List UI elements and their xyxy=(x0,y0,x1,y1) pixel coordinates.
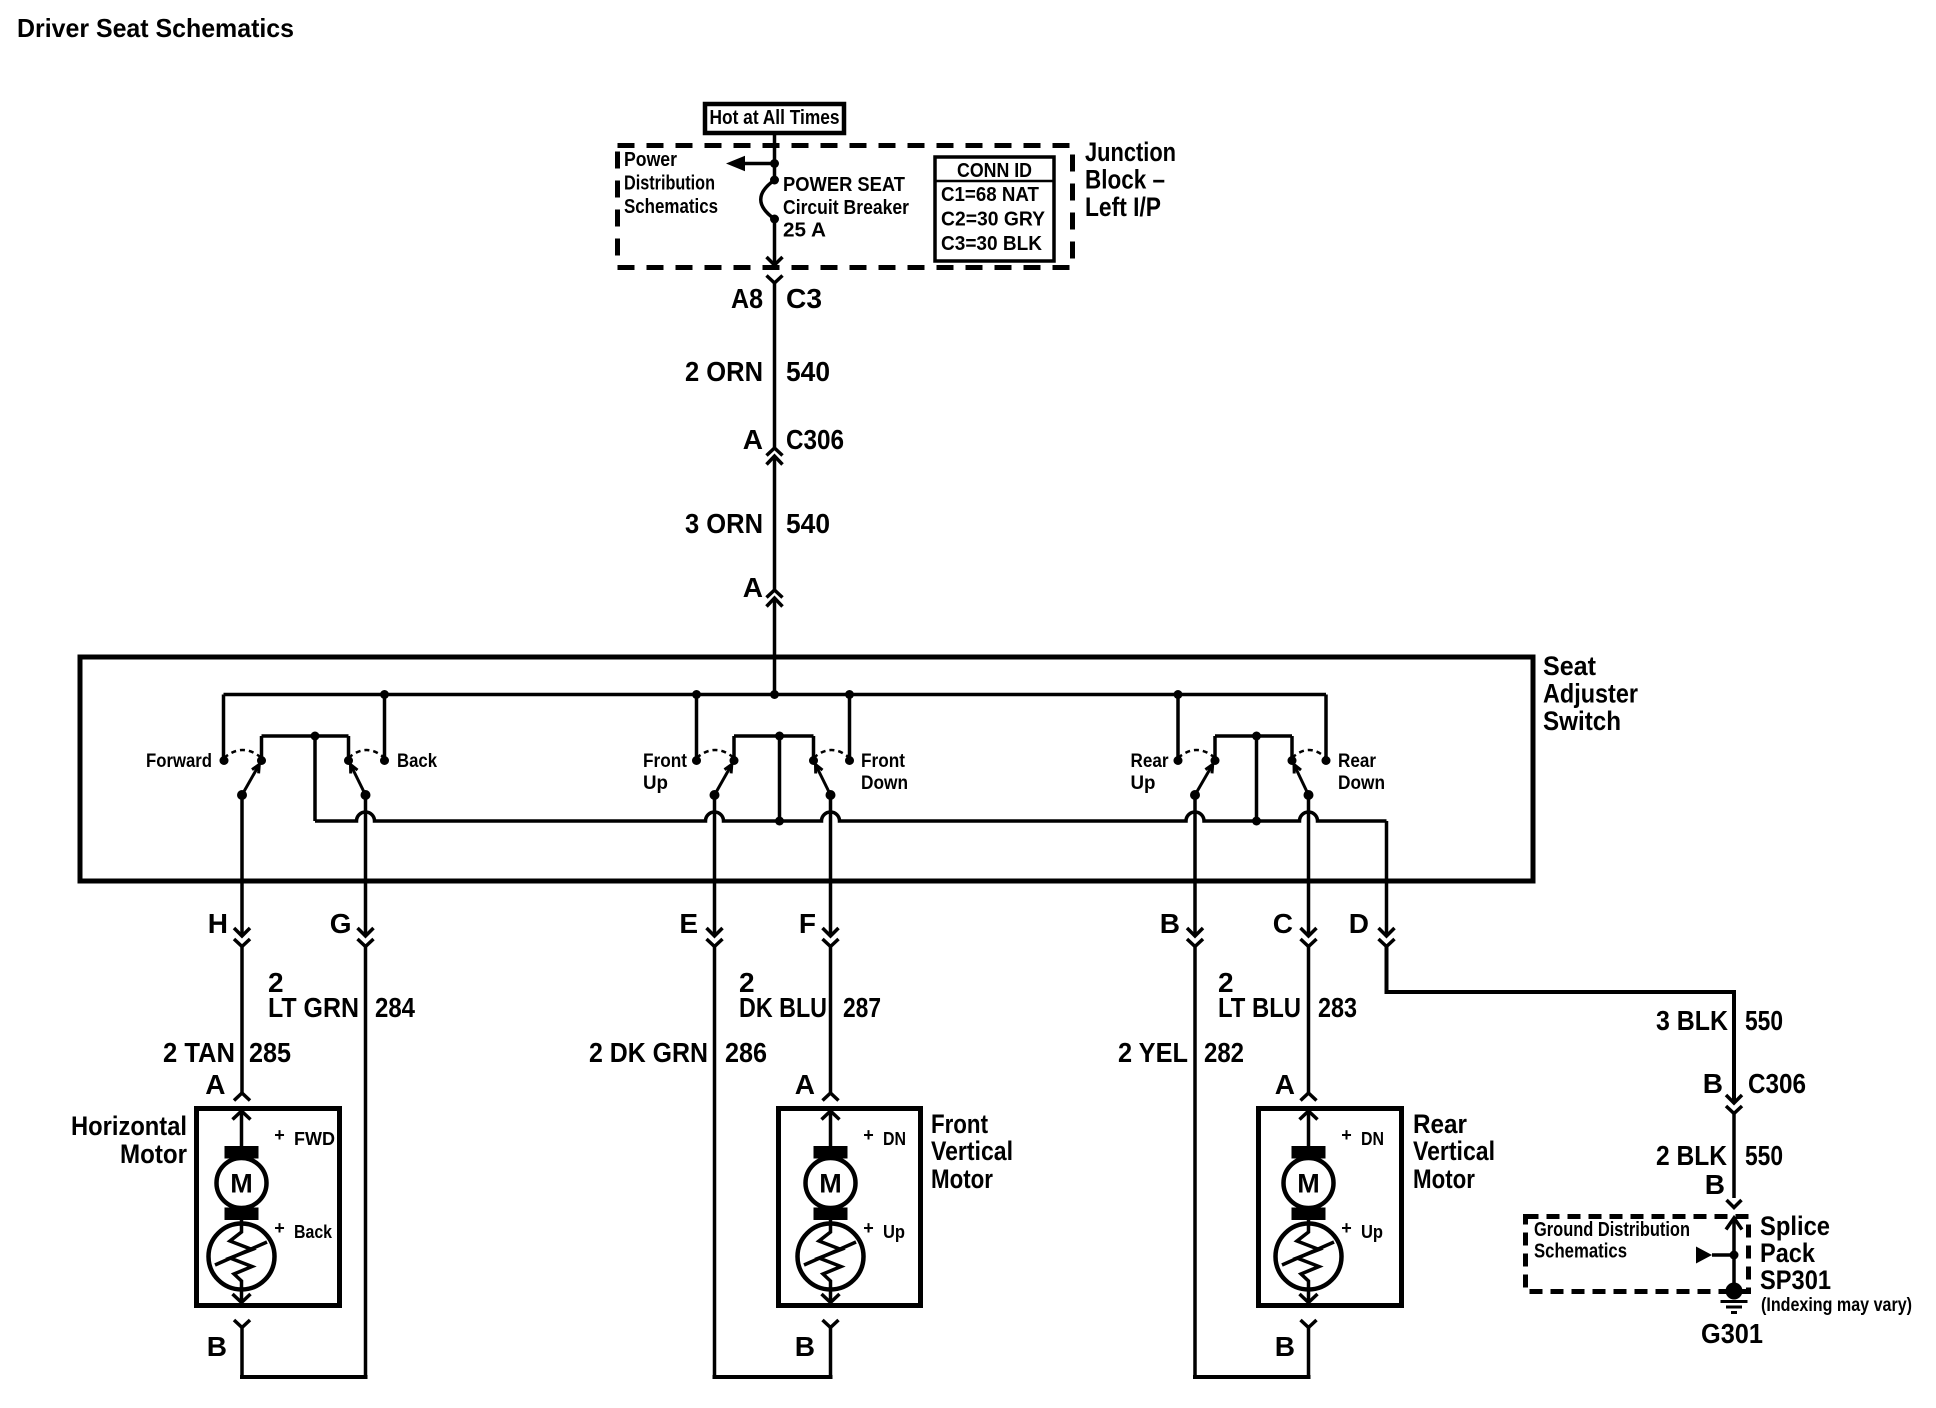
svg-text:285: 285 xyxy=(249,1037,291,1068)
svg-text:Front: Front xyxy=(643,751,688,772)
svg-text:H: H xyxy=(208,908,228,939)
svg-text:+: + xyxy=(274,1125,285,1145)
svg-text:Up: Up xyxy=(1361,1222,1383,1242)
svg-text:A: A xyxy=(743,572,763,603)
svg-text:2 YEL: 2 YEL xyxy=(1118,1037,1188,1068)
svg-text:Left I/P: Left I/P xyxy=(1085,192,1161,222)
svg-text:Rear: Rear xyxy=(1131,751,1170,772)
svg-text:Junction: Junction xyxy=(1085,137,1176,167)
svg-text:+: + xyxy=(1341,1218,1352,1238)
svg-text:Power: Power xyxy=(624,149,677,171)
svg-text:DN: DN xyxy=(1361,1129,1384,1149)
svg-text:C2=30 GRY: C2=30 GRY xyxy=(941,209,1046,231)
svg-text:CONN ID: CONN ID xyxy=(957,160,1032,182)
svg-text:Vertical: Vertical xyxy=(931,1136,1013,1166)
svg-text:Back: Back xyxy=(294,1222,333,1242)
svg-text:Switch: Switch xyxy=(1543,706,1621,736)
svg-text:Rear: Rear xyxy=(1413,1109,1467,1139)
svg-text:Front: Front xyxy=(931,1109,988,1139)
svg-text:Schematics: Schematics xyxy=(1534,1241,1627,1263)
svg-text:283: 283 xyxy=(1318,992,1357,1023)
svg-text:+: + xyxy=(863,1125,874,1145)
svg-text:D: D xyxy=(1349,908,1369,939)
svg-text:Circuit Breaker: Circuit Breaker xyxy=(783,197,909,219)
svg-text:C3=30 BLK: C3=30 BLK xyxy=(941,233,1043,255)
svg-text:B: B xyxy=(207,1331,227,1362)
svg-text:C1=68 NAT: C1=68 NAT xyxy=(941,184,1039,206)
svg-text:Splice: Splice xyxy=(1760,1211,1830,1241)
svg-text:B: B xyxy=(1705,1169,1725,1200)
svg-text:Motor: Motor xyxy=(120,1139,187,1169)
svg-text:2 ORN: 2 ORN xyxy=(685,356,763,387)
svg-text:Horizontal: Horizontal xyxy=(71,1111,187,1141)
svg-text:Up: Up xyxy=(883,1222,905,1242)
svg-text:Adjuster: Adjuster xyxy=(1543,679,1638,709)
svg-text:Hot at All Times: Hot at All Times xyxy=(710,107,840,129)
svg-text:Down: Down xyxy=(1338,773,1385,794)
svg-text:C: C xyxy=(1273,908,1293,939)
svg-text:LT BLU: LT BLU xyxy=(1218,992,1301,1023)
svg-text:FWD: FWD xyxy=(294,1129,335,1149)
svg-text:Vertical: Vertical xyxy=(1413,1136,1495,1166)
svg-text:Up: Up xyxy=(1131,773,1156,794)
svg-text:Ground Distribution: Ground Distribution xyxy=(1534,1219,1690,1241)
svg-text:Forward: Forward xyxy=(146,751,212,772)
svg-text:E: E xyxy=(679,908,698,939)
svg-text:Front: Front xyxy=(861,751,906,772)
svg-text:Driver Seat Schematics: Driver Seat Schematics xyxy=(17,13,294,43)
svg-text:+: + xyxy=(1341,1125,1352,1145)
svg-text:F: F xyxy=(799,908,816,939)
svg-text:DN: DN xyxy=(883,1129,906,1149)
svg-text:540: 540 xyxy=(786,356,830,387)
svg-text:A8: A8 xyxy=(731,283,763,314)
svg-text:540: 540 xyxy=(786,508,830,539)
svg-text:B: B xyxy=(1275,1331,1295,1362)
svg-text:B: B xyxy=(795,1331,815,1362)
svg-text:Distribution: Distribution xyxy=(624,173,715,195)
svg-text:(Indexing may vary): (Indexing may vary) xyxy=(1761,1295,1912,1316)
svg-text:LT GRN: LT GRN xyxy=(268,992,359,1023)
svg-text:B: B xyxy=(1703,1068,1723,1099)
svg-text:286: 286 xyxy=(725,1037,767,1068)
svg-text:Up: Up xyxy=(643,773,668,794)
svg-text:Down: Down xyxy=(861,773,908,794)
svg-text:SP301: SP301 xyxy=(1760,1265,1831,1295)
svg-text:G301: G301 xyxy=(1701,1318,1763,1349)
svg-text:550: 550 xyxy=(1745,1005,1783,1036)
svg-text:A: A xyxy=(205,1069,225,1100)
svg-text:25 A: 25 A xyxy=(783,220,826,242)
svg-text:A: A xyxy=(743,424,763,455)
svg-text:282: 282 xyxy=(1204,1037,1244,1068)
svg-text:C306: C306 xyxy=(786,424,844,455)
svg-text:B: B xyxy=(1160,908,1180,939)
svg-text:550: 550 xyxy=(1745,1140,1783,1171)
svg-text:Motor: Motor xyxy=(1413,1164,1475,1194)
svg-text:A: A xyxy=(795,1069,815,1100)
svg-text:POWER SEAT: POWER SEAT xyxy=(783,174,905,196)
svg-text:G: G xyxy=(330,908,352,939)
svg-text:284: 284 xyxy=(375,992,415,1023)
svg-text:Motor: Motor xyxy=(931,1164,993,1194)
svg-text:Block –: Block – xyxy=(1085,165,1165,195)
svg-text:2 DK GRN: 2 DK GRN xyxy=(589,1037,708,1068)
svg-text:3 BLK: 3 BLK xyxy=(1656,1005,1728,1036)
svg-text:Seat: Seat xyxy=(1543,651,1596,681)
svg-text:+: + xyxy=(863,1218,874,1238)
svg-text:DK BLU: DK BLU xyxy=(739,992,827,1023)
svg-text:2 BLK: 2 BLK xyxy=(1656,1140,1727,1171)
svg-text:Back: Back xyxy=(397,751,437,772)
svg-text:Pack: Pack xyxy=(1760,1238,1816,1268)
svg-text:2 TAN: 2 TAN xyxy=(163,1037,235,1068)
svg-text:A: A xyxy=(1275,1069,1295,1100)
svg-text:C306: C306 xyxy=(1748,1068,1806,1099)
svg-text:Rear: Rear xyxy=(1338,751,1377,772)
svg-text:C3: C3 xyxy=(786,283,822,314)
svg-text:3 ORN: 3 ORN xyxy=(685,508,763,539)
svg-text:Schematics: Schematics xyxy=(624,196,718,218)
svg-text:287: 287 xyxy=(843,992,881,1023)
svg-text:+: + xyxy=(274,1218,285,1238)
